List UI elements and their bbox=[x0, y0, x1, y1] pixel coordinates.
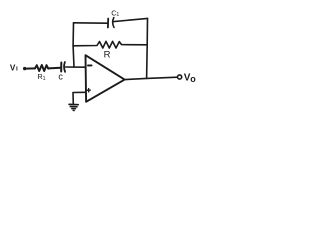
svg-text:1: 1 bbox=[116, 12, 119, 18]
svg-text:V: V bbox=[10, 64, 16, 73]
svg-text:c: c bbox=[58, 71, 63, 81]
svg-text:o: o bbox=[190, 74, 196, 84]
svg-text:1: 1 bbox=[43, 76, 46, 82]
svg-text:i: i bbox=[16, 66, 18, 73]
svg-text:R: R bbox=[104, 50, 111, 61]
